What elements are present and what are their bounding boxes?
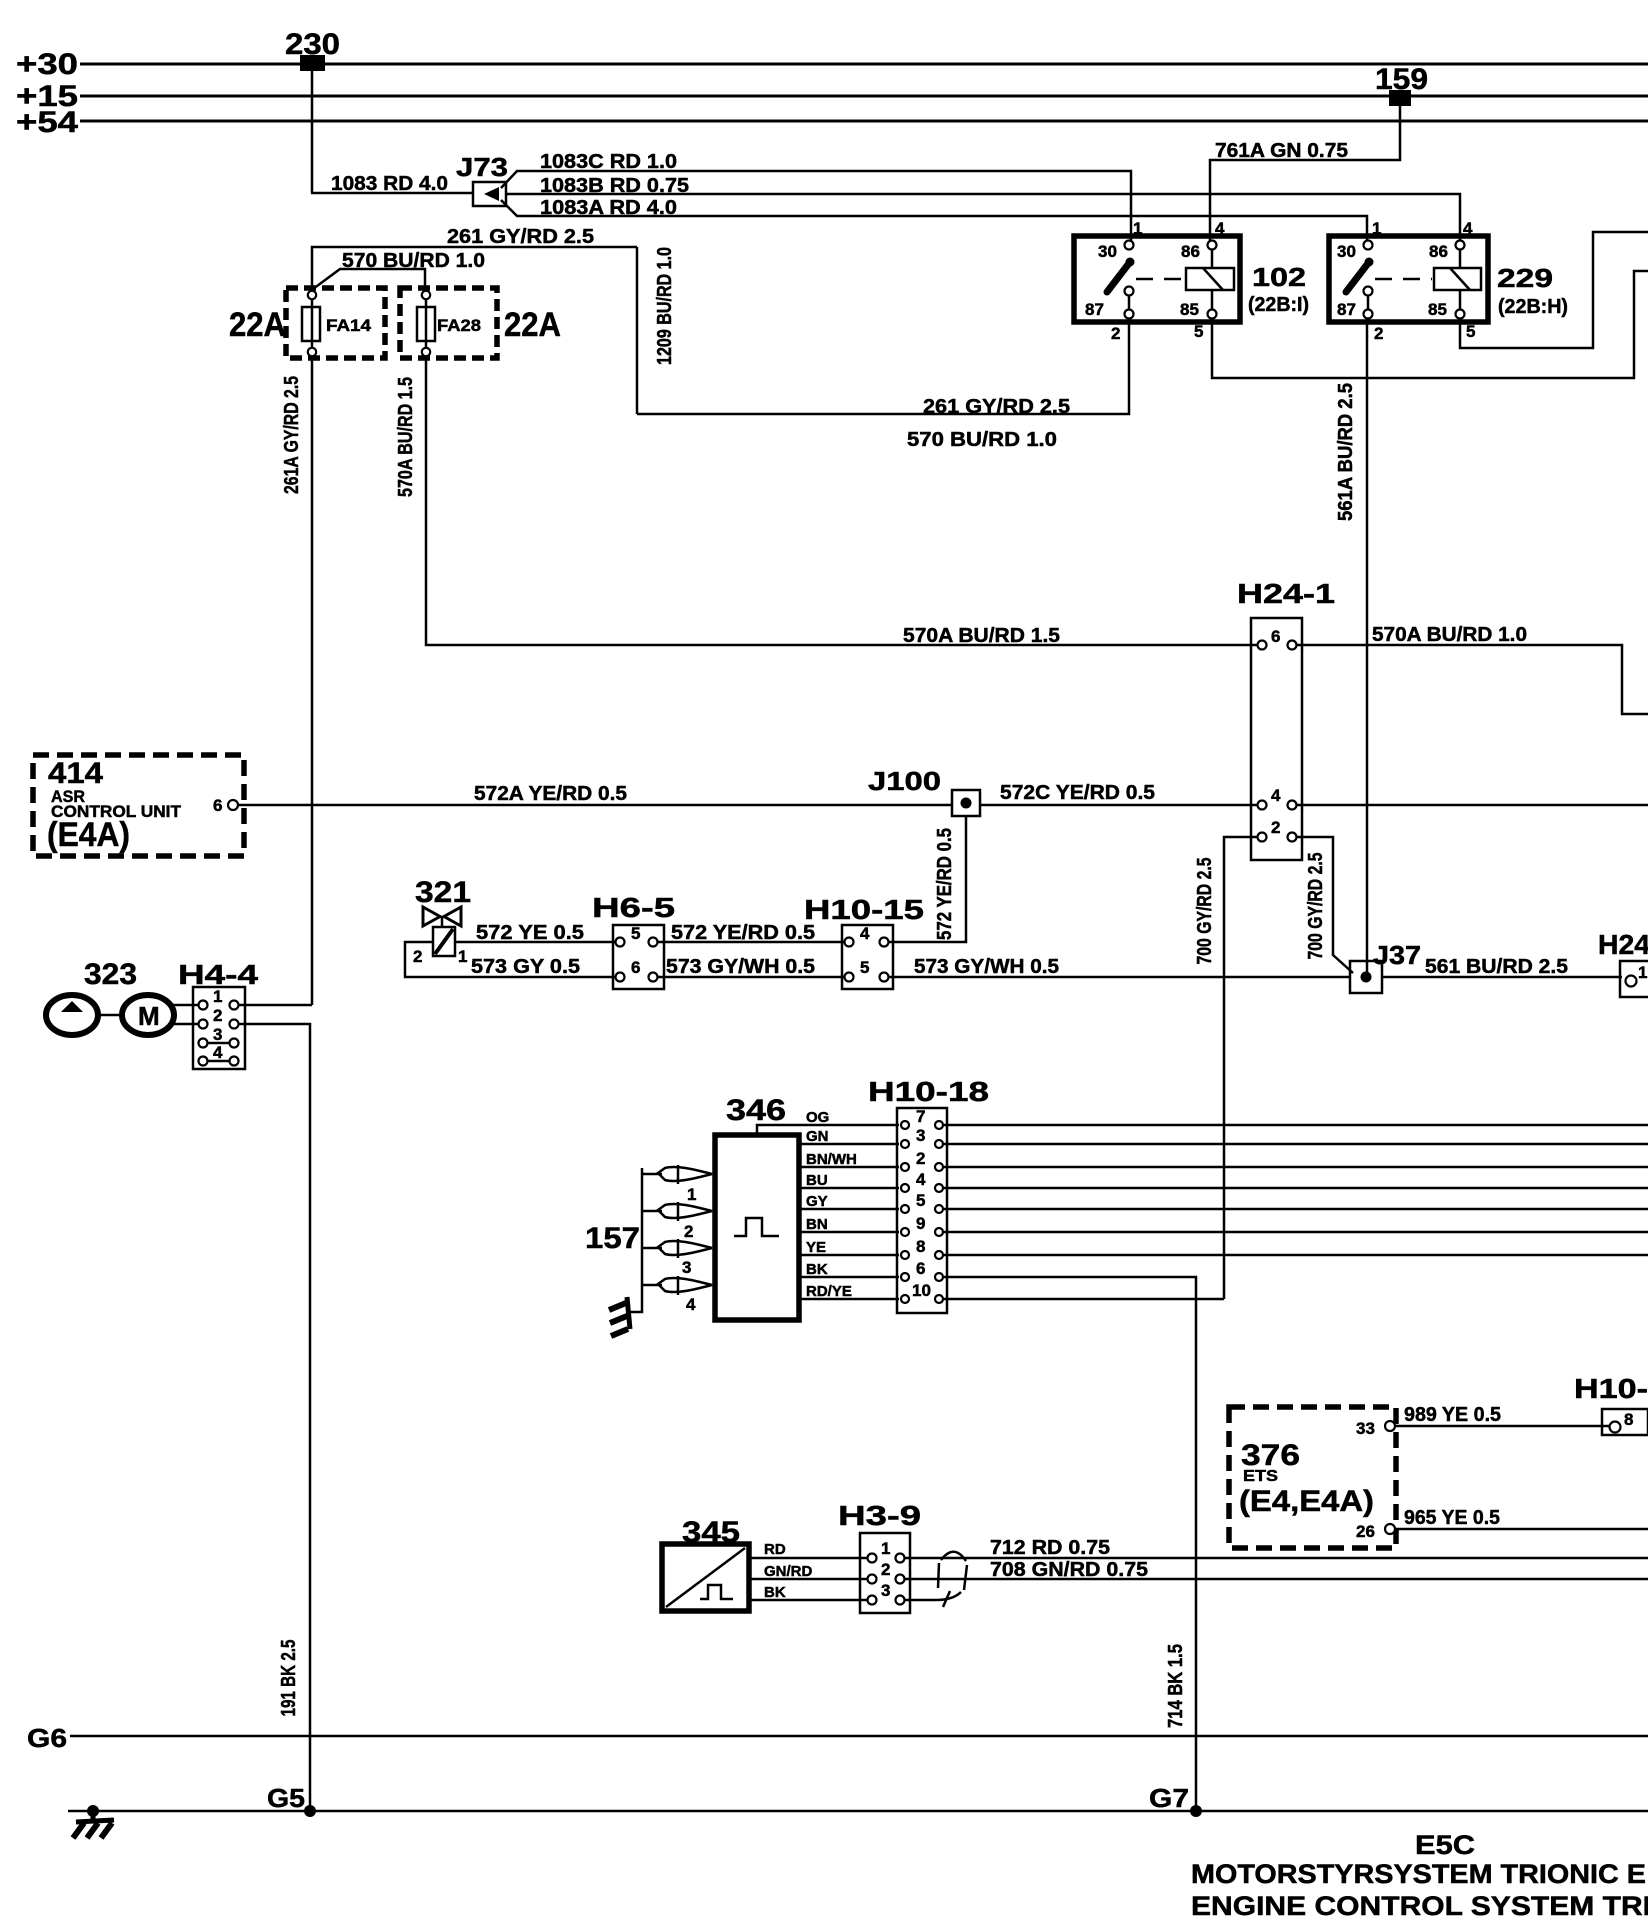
- node 159 label: [1375, 63, 1428, 96]
- relay 102 pin 4 label: [1215, 219, 1225, 238]
- net +15 label: [16, 80, 78, 113]
- relay 229 pin 4 label: [1463, 219, 1473, 238]
- chassis ground symbol at G5 rail: [73, 1805, 114, 1838]
- sensor 345 box: [662, 1544, 749, 1611]
- motor M circle: [122, 995, 174, 1035]
- svg-text:BK: BK: [764, 1584, 786, 1601]
- connector H6-5 pin 6: [616, 958, 658, 982]
- svg-text:2: 2: [1271, 818, 1280, 837]
- label wire 572 YE 0.5: [476, 922, 584, 944]
- relay 229 terminal 85 label: [1428, 300, 1447, 319]
- connector H3-9 box: [860, 1533, 910, 1613]
- wire +30 bus line: [80, 63, 1648, 66]
- svg-text:3: 3: [881, 1581, 890, 1600]
- label wire 761A GN 0.75: [1215, 140, 1348, 162]
- svg-text:GN: GN: [806, 1128, 829, 1145]
- svg-text:191 BK 2.5: 191 BK 2.5: [278, 1640, 300, 1717]
- splice J37 box: [1350, 961, 1382, 993]
- ETS unit 376 pin 33: [1356, 1419, 1395, 1438]
- svg-text:261 GY/RD 2.5: 261 GY/RD 2.5: [923, 396, 1070, 418]
- wire GY 346 to H10-18 pin 5: [799, 1193, 899, 1210]
- svg-text:4: 4: [860, 924, 870, 943]
- fuse FA28 name: [437, 316, 481, 335]
- svg-text:2: 2: [684, 1222, 693, 1241]
- wire OG 346 to H10-18 pin 7: [757, 1109, 899, 1135]
- ETS unit 376 box: [1229, 1407, 1396, 1548]
- svg-text:1083A RD 4.0: 1083A RD 4.0: [540, 197, 677, 219]
- wire 1083 RD 4.0 from node 230 to J73: [311, 64, 474, 193]
- pump-motor link: [98, 1014, 122, 1017]
- svg-text:86: 86: [1181, 242, 1200, 261]
- fuse FA14 element: [302, 299, 320, 348]
- ignition module 346 pulse symbol: [734, 1218, 779, 1236]
- svg-text:8: 8: [916, 1237, 925, 1256]
- connector H10-15 label: [804, 894, 924, 925]
- label wire 989 YE 0.5: [1404, 1404, 1501, 1426]
- label wire 573 GY/WH 0.5: [666, 956, 815, 978]
- connector H3-9 label: [838, 1500, 921, 1531]
- fuse FA14 name: [326, 316, 372, 335]
- twisted pair ticks on wire 708: [938, 1563, 967, 1590]
- label wire 573 GY/WH 0.5 right: [914, 956, 1059, 978]
- svg-text:H24: H24: [1598, 929, 1648, 960]
- relay 229 pin 30 circle: [1364, 241, 1373, 250]
- svg-text:2: 2: [881, 1560, 890, 1579]
- svg-text:561 BU/RD 2.5: 561 BU/RD 2.5: [1425, 956, 1568, 978]
- connector H6-5 pin 5: [616, 924, 658, 947]
- wire BU 346 to H10-18 pin 4: [799, 1172, 899, 1189]
- relay 102 terminal 86 label: [1181, 242, 1200, 261]
- wire 572 YE/RD 0.5 H6-5 to H10-15: [658, 941, 850, 944]
- wire 561A BU/RD 2.5 relay 229 pin 2 down to J37: [1366, 318, 1369, 972]
- wire GN/RD sensor 345 to H3-9 pin 2: [749, 1563, 870, 1580]
- wire 573 GY/WH 0.5 H6-5 to H10-15: [658, 976, 850, 979]
- svg-text:10: 10: [912, 1281, 931, 1300]
- svg-text:157: 157: [585, 1222, 640, 1255]
- relay 102 terminal 85 label: [1180, 300, 1199, 319]
- injector 3 pin label: [682, 1258, 691, 1277]
- svg-text:30: 30: [1098, 242, 1117, 261]
- svg-text:H3-9: H3-9: [838, 1500, 921, 1531]
- connector H10-15 pin 5: [845, 958, 889, 982]
- ETS unit 376 designator: [1241, 1439, 1300, 1472]
- svg-text:2: 2: [916, 1149, 925, 1168]
- injector 1 pin label: [687, 1185, 696, 1204]
- svg-text:4: 4: [1463, 219, 1473, 238]
- wire motor to H4-4 pin 1: [172, 1004, 198, 1007]
- svg-text:4: 4: [1271, 786, 1281, 805]
- svg-text:4: 4: [916, 1170, 926, 1189]
- relay 229 connector ref (22B:H): [1498, 296, 1568, 318]
- label wire 572A YE/RD 0.5: [474, 783, 627, 805]
- label wire 561 BU/RD 2.5: [1425, 956, 1568, 978]
- node 230 label: [285, 28, 340, 61]
- relay 102 terminal 30 label: [1098, 242, 1117, 261]
- connector H3-9 pin 1: [868, 1539, 905, 1563]
- fuse FA28 element: [417, 299, 435, 348]
- svg-text:5: 5: [1466, 322, 1475, 341]
- svg-text:323: 323: [84, 958, 137, 991]
- relay 229 terminal 87 label: [1337, 300, 1356, 319]
- connector H24-1 box: [1251, 618, 1302, 860]
- relay 102 pin 1 label: [1133, 219, 1142, 238]
- svg-text:26: 26: [1356, 1522, 1375, 1541]
- svg-text:321: 321: [415, 876, 471, 909]
- relay 229 terminal 30 label: [1337, 242, 1356, 261]
- svg-text:ETS: ETS: [1243, 1468, 1278, 1485]
- wire 573 GY 0.5 valve to H6-5 pin 6: [405, 942, 615, 977]
- wire 1083A RD 4.0 from J73 to relay 229 pin 1: [501, 200, 1367, 242]
- wire H10-18 pin 4 to right edge: [944, 1187, 1648, 1190]
- ECU 414 box: [33, 755, 244, 856]
- connector H3-9 pin 2: [868, 1560, 905, 1584]
- relay 229 coil box: [1434, 268, 1481, 290]
- wire H10-18 pin 5 to right edge: [944, 1208, 1648, 1211]
- wire 572 YE 0.5 valve to H6-5 pin 5: [455, 941, 615, 944]
- wire BK shield stub from H3-9 pin 3: [905, 1591, 961, 1607]
- injector 3 symbol: [642, 1239, 712, 1258]
- connector H24-1 pin 4: [1258, 786, 1297, 810]
- svg-text:712 RD 0.75: 712 RD 0.75: [990, 1537, 1110, 1559]
- ignition module 346 designator: [726, 1094, 786, 1127]
- relay 229 terminal 86 label: [1429, 242, 1448, 261]
- svg-text:714 BK 1.5: 714 BK 1.5: [1165, 1644, 1187, 1728]
- svg-text:(E4A): (E4A): [47, 816, 130, 854]
- wire 570A BU/RD 1.5 fuse FA28 down and right to H24-1 pin 6: [426, 356, 1257, 645]
- relay 102 pin 5 label: [1194, 322, 1203, 341]
- valve 321 pin 2 label: [413, 947, 422, 966]
- connector H10-18 box: [897, 1108, 947, 1313]
- svg-text:1: 1: [1372, 219, 1381, 238]
- svg-text:2: 2: [1374, 324, 1383, 343]
- ignition module 346 box: [715, 1135, 799, 1320]
- ground G5 label: [267, 1783, 305, 1813]
- svg-text:708 GN/RD 0.75: 708 GN/RD 0.75: [990, 1559, 1148, 1581]
- connector H6-5 label: [592, 892, 675, 923]
- svg-text:229: 229: [1497, 263, 1553, 293]
- label wire 570A BU/RD 1.0: [1372, 624, 1527, 646]
- connector H10-18 pin 10: [901, 1281, 943, 1303]
- connector H10-18 pin 7: [901, 1107, 943, 1129]
- sensor 345 designator: [682, 1516, 740, 1549]
- relay 229 pin 86 circle: [1456, 241, 1465, 250]
- svg-text:700 GY/RD 2.5: 700 GY/RD 2.5: [1305, 853, 1327, 960]
- svg-text:(22B:I): (22B:I): [1248, 294, 1309, 316]
- wire 761A GN 0.75 from node 159 to relay 102 pin 4: [1210, 106, 1400, 242]
- connector H10-18 pin 5: [901, 1191, 943, 1213]
- label wire 572 YE/RD 0.5 vertical: [934, 828, 956, 940]
- svg-text:87: 87: [1337, 300, 1356, 319]
- svg-text:J100: J100: [868, 766, 941, 796]
- label wire 261A GY/RD 2.5: [281, 376, 303, 494]
- ground G5 rail: [68, 1810, 1648, 1813]
- ECU 414 designator: [48, 757, 103, 790]
- wire 708 GN/RD 0.75 H3-9 pin 2 to right edge: [905, 1578, 1648, 1581]
- ground G5 junction dot: [304, 1805, 316, 1817]
- label wire 561A BU/RD 2.5: [1335, 383, 1357, 521]
- svg-text:573 GY/WH 0.5: 573 GY/WH 0.5: [914, 956, 1059, 978]
- connector H10-18 pin 3: [901, 1126, 943, 1148]
- twisted pair arc on wire 712: [941, 1552, 966, 1561]
- svg-text:561A BU/RD 2.5: 561A BU/RD 2.5: [1335, 383, 1357, 521]
- ECU 414 ref (E4A): [47, 816, 130, 854]
- ground symbol at injector bus: [609, 1297, 630, 1336]
- valve 321 bowtie symbol: [423, 907, 461, 926]
- svg-text:572A YE/RD 0.5: 572A YE/RD 0.5: [474, 783, 627, 805]
- svg-text:1083B RD 0.75: 1083B RD 0.75: [540, 175, 689, 197]
- relay 102 connector ref (22B:I): [1248, 294, 1309, 316]
- svg-text:6: 6: [631, 958, 640, 977]
- ETS unit 376 name: [1243, 1468, 1278, 1485]
- wire 700 GY/RD 2.5 H24-1 pin 2 left leg down to H10-18 pin 10: [1224, 837, 1257, 1299]
- svg-text:H4-4: H4-4: [178, 959, 259, 990]
- wire 570A BU/RD 1.0 H24-1 pin 6 to right edge: [1297, 645, 1648, 714]
- ground G7 label: [1149, 1783, 1189, 1813]
- label wire 261 GY/RD 2.5 upper: [447, 226, 594, 248]
- connector H10-15 pin 4: [845, 924, 889, 947]
- wire 1083B RD 0.75 from J73 to relay 229 pin 4: [506, 194, 1460, 242]
- wire 570 BU/RD 1.0 fuse FA14 top to fuse FA28 top: [313, 269, 425, 291]
- svg-text:H10-: H10-: [1574, 1373, 1648, 1404]
- svg-text:85: 85: [1180, 300, 1199, 319]
- wire +15 bus line: [80, 95, 1648, 98]
- svg-text:700 GY/RD 2.5: 700 GY/RD 2.5: [1194, 858, 1216, 965]
- svg-text:570A BU/RD 1.5: 570A BU/RD 1.5: [903, 625, 1060, 647]
- ECU 414 pin 6: [213, 796, 238, 815]
- label wire 965 YE 0.5: [1404, 1507, 1500, 1529]
- splice J73 box: [473, 182, 506, 206]
- svg-text:22A: 22A: [504, 306, 561, 344]
- ETS unit 376 ref (E4,E4A): [1239, 1485, 1374, 1518]
- wire 700 GY/RD 2.5 H24-1 pin 2 right leg down to J37: [1297, 837, 1353, 973]
- relay 102 pin 85 circle: [1208, 310, 1217, 319]
- ground G6 rail: [70, 1735, 1648, 1738]
- label wire 570 BU/RD 1.0 lower: [907, 429, 1057, 451]
- label wire 1083 RD 4.0: [331, 173, 448, 195]
- fuse FA28 top terminal: [422, 291, 430, 299]
- valve 321 body: [433, 917, 455, 956]
- svg-text:BN: BN: [806, 1216, 828, 1233]
- wire H10-18 pin 3 to right edge: [944, 1143, 1648, 1146]
- connector H10-18 pin 9: [901, 1214, 943, 1236]
- injector 2 pin label: [684, 1222, 693, 1241]
- sensor 345 pulse symbol: [700, 1585, 733, 1599]
- connector H10-18 pin 2: [901, 1149, 943, 1171]
- label wire 714 BK 1.5: [1165, 1644, 1187, 1728]
- svg-text:3: 3: [916, 1126, 925, 1145]
- svg-text:3: 3: [213, 1025, 222, 1044]
- relay 229 designator: [1497, 263, 1553, 293]
- connector H6-5 box: [613, 925, 664, 989]
- splice J100 label: [868, 766, 941, 796]
- svg-text:1: 1: [213, 987, 222, 1006]
- relay 102 switch contact circle: [1125, 287, 1134, 296]
- wire 572 YE/RD 0.5 from J100 down to H10-15 pin 4: [889, 816, 966, 942]
- relay 229 pin 1 label: [1372, 219, 1381, 238]
- svg-text:ENGINE CONTROL SYSTEM TRI: ENGINE CONTROL SYSTEM TRI: [1191, 1891, 1648, 1921]
- connector H24-1 label: [1237, 578, 1335, 609]
- svg-text:573 GY/WH 0.5: 573 GY/WH 0.5: [666, 956, 815, 978]
- connector H10-18 pin 4: [901, 1170, 943, 1192]
- wire RD/YE 346 to H10-18 pin 10: [799, 1283, 899, 1300]
- wire GN 346 to H10-18 pin 3: [799, 1128, 899, 1145]
- svg-text:22A: 22A: [229, 306, 286, 344]
- svg-text:1: 1: [458, 947, 467, 966]
- svg-text:570A BU/RD 1.0: 570A BU/RD 1.0: [1372, 624, 1527, 646]
- svg-text:(22B:H): (22B:H): [1498, 296, 1568, 318]
- svg-text:BK: BK: [806, 1261, 828, 1278]
- label wire 570A BU/RD 1.5 vertical: [395, 377, 417, 497]
- relay 229 contact link wire: [1367, 295, 1370, 310]
- label wire 573 GY 0.5: [471, 956, 580, 978]
- svg-text:86: 86: [1429, 242, 1448, 261]
- svg-text:H6-5: H6-5: [592, 892, 675, 923]
- svg-text:GN/RD: GN/RD: [764, 1563, 813, 1580]
- connector H4-4 pin 2: [199, 1006, 239, 1029]
- connector H24 (right edge) box with pin 1: [1620, 961, 1648, 997]
- wire 573 GY/WH 0.5 H10-15 to J37: [889, 976, 1350, 979]
- wire RD/YE H10-18 pin 10 to 700 GY/RD vertical: [944, 1298, 1224, 1301]
- relay 229 switch arm: [1346, 258, 1374, 293]
- label wire 570A BU/RD 1.5 horizontal: [903, 625, 1060, 647]
- relay 102 coil box: [1186, 268, 1234, 290]
- svg-text:9: 9: [916, 1214, 925, 1233]
- label wire 570 BU/RD 1.0 upper: [342, 250, 485, 272]
- wire 261 GY/RD 2.5 fuse FA14 top to corner: [312, 247, 637, 291]
- ETS unit 376 pin 26: [1356, 1522, 1395, 1541]
- label wire 1209 BU/RD 1.0: [654, 247, 676, 365]
- svg-text:J73: J73: [456, 152, 508, 182]
- wire YE 346 to H10-18 pin 8: [799, 1239, 899, 1256]
- svg-text:H10-18: H10-18: [868, 1076, 989, 1107]
- relay 229 pin 2 label: [1374, 324, 1383, 343]
- svg-text:572 YE/RD 0.5: 572 YE/RD 0.5: [934, 828, 956, 940]
- svg-text:2: 2: [213, 1006, 222, 1025]
- svg-text:BN/WH: BN/WH: [806, 1151, 857, 1168]
- svg-text:1083C RD 1.0: 1083C RD 1.0: [540, 151, 677, 173]
- component 157 designator: [585, 1222, 640, 1255]
- wire 1209 BU/RD 1.0 vertical: [636, 247, 639, 414]
- wire 561 BU/RD 2.5 J37 to connector H24 pin 1: [1382, 976, 1622, 979]
- label wire 191 BK 2.5: [278, 1640, 300, 1717]
- sensor 345 diagonal: [666, 1548, 745, 1607]
- relay 102 coil pin wires: [1211, 249, 1214, 310]
- ECU 414 name CONTROL UNIT: [51, 802, 182, 821]
- page ref E5C: [1415, 1830, 1475, 1860]
- label wire 712 RD 0.75: [990, 1537, 1110, 1559]
- title ENGINE CONTROL SYSTEM: [1191, 1891, 1648, 1921]
- injector 4 pin label: [686, 1295, 696, 1314]
- injector 1 symbol: [642, 1165, 712, 1184]
- wire 572C YE/RD 0.5 from J100 to H24-1 pin 4 and right edge: [980, 804, 1648, 807]
- connector H4-4 box: [193, 987, 245, 1069]
- svg-text:346: 346: [726, 1094, 786, 1127]
- svg-text:+30: +30: [16, 48, 78, 81]
- svg-text:261 GY/RD 2.5: 261 GY/RD 2.5: [447, 226, 594, 248]
- svg-text:5: 5: [631, 924, 640, 943]
- label wire 261 GY/RD 2.5 lower: [923, 396, 1070, 418]
- svg-text:6: 6: [1271, 627, 1280, 646]
- label wire 700 GY/RD 2.5 right: [1305, 853, 1327, 960]
- svg-text:30: 30: [1337, 242, 1356, 261]
- svg-text:572 YE 0.5: 572 YE 0.5: [476, 922, 584, 944]
- svg-text:G7: G7: [1149, 1783, 1189, 1813]
- wire 714 BK 1.5 H10-18 pin 6 down to G7: [944, 1277, 1196, 1811]
- svg-text:4: 4: [686, 1295, 696, 1314]
- svg-text:7: 7: [916, 1107, 925, 1126]
- wire BN 346 to H10-18 pin 9: [799, 1216, 899, 1233]
- connector H10-18 pin 6: [901, 1259, 943, 1281]
- wire H10-18 pin 2 to right edge: [944, 1166, 1648, 1169]
- relay 229 pin 5 label: [1466, 322, 1475, 341]
- svg-text:5: 5: [1194, 322, 1203, 341]
- connector H10-18 label: [868, 1076, 989, 1107]
- svg-text:2: 2: [1111, 324, 1120, 343]
- relay 229 coil dashed link: [1375, 278, 1432, 281]
- wire 965 YE 0.5 from 376 pin 26 to right edge: [1395, 1528, 1648, 1531]
- relay 102 contact link wire: [1128, 295, 1131, 310]
- connector H4-4 pin 3 jumper: [199, 1025, 239, 1048]
- connector H3-9 pin 3: [868, 1581, 905, 1605]
- label wire 1083C RD 1.0: [540, 151, 677, 173]
- wire H10-18 pin 8 to right edge: [944, 1254, 1648, 1257]
- svg-text:+54: +54: [16, 106, 78, 139]
- ground G7 junction dot: [1190, 1805, 1202, 1817]
- svg-text:J37: J37: [1373, 940, 1421, 970]
- connector H10 (right edge) label: [1574, 1373, 1648, 1404]
- connector H10 (right edge) box with pin 8: [1602, 1409, 1648, 1435]
- relay 229 coil pin wires: [1459, 249, 1462, 310]
- svg-text:8: 8: [1624, 1410, 1633, 1429]
- node 230 junction square on +30: [300, 55, 325, 71]
- svg-text:1209 BU/RD 1.0: 1209 BU/RD 1.0: [654, 247, 676, 365]
- wire +54 bus line: [80, 120, 1648, 123]
- fuse FA28 rating 22A: [504, 306, 561, 344]
- wire relay 229 pin 5 to right edge: [1460, 232, 1648, 348]
- ground G6 label: [27, 1723, 67, 1753]
- wire 572A YE/RD 0.5 from 414 pin 6 to J100: [238, 804, 952, 807]
- wire H4-4 pin 1 to 261A vertical: [239, 1004, 312, 1007]
- svg-text:1: 1: [1638, 963, 1647, 982]
- relay 102 pin 86 circle: [1208, 241, 1217, 250]
- ECU 414 name ASR: [51, 787, 85, 806]
- svg-text:6: 6: [916, 1259, 925, 1278]
- splice J73 label: [456, 152, 508, 182]
- injector 4 symbol: [642, 1276, 712, 1295]
- svg-text:3: 3: [682, 1258, 691, 1277]
- svg-text:E5C: E5C: [1415, 1830, 1475, 1860]
- relay 229 box: [1329, 236, 1488, 322]
- svg-text:965 YE 0.5: 965 YE 0.5: [1404, 1507, 1500, 1529]
- svg-text:573 GY 0.5: 573 GY 0.5: [471, 956, 580, 978]
- relay 229 pin 87 circle: [1364, 310, 1373, 319]
- fuse FA14 rating 22A: [229, 306, 286, 344]
- svg-text:87: 87: [1085, 300, 1104, 319]
- fuse FA14 bottom terminal: [308, 348, 316, 356]
- splice J37 label: [1373, 940, 1421, 970]
- relay 102 designator: [1252, 262, 1306, 292]
- svg-text:(E4,E4A): (E4,E4A): [1239, 1485, 1374, 1518]
- svg-text:4: 4: [213, 1043, 223, 1062]
- svg-text:5: 5: [916, 1191, 925, 1210]
- label wire 1083A RD 4.0: [540, 197, 677, 219]
- svg-text:H24-1: H24-1: [1237, 578, 1335, 609]
- svg-text:1: 1: [687, 1185, 696, 1204]
- net +30 label: [16, 48, 78, 81]
- wire motor to H4-4 pin 2: [172, 1023, 198, 1026]
- connector H4-4 pin 1: [199, 987, 239, 1010]
- svg-text:1083 RD 4.0: 1083 RD 4.0: [331, 173, 448, 195]
